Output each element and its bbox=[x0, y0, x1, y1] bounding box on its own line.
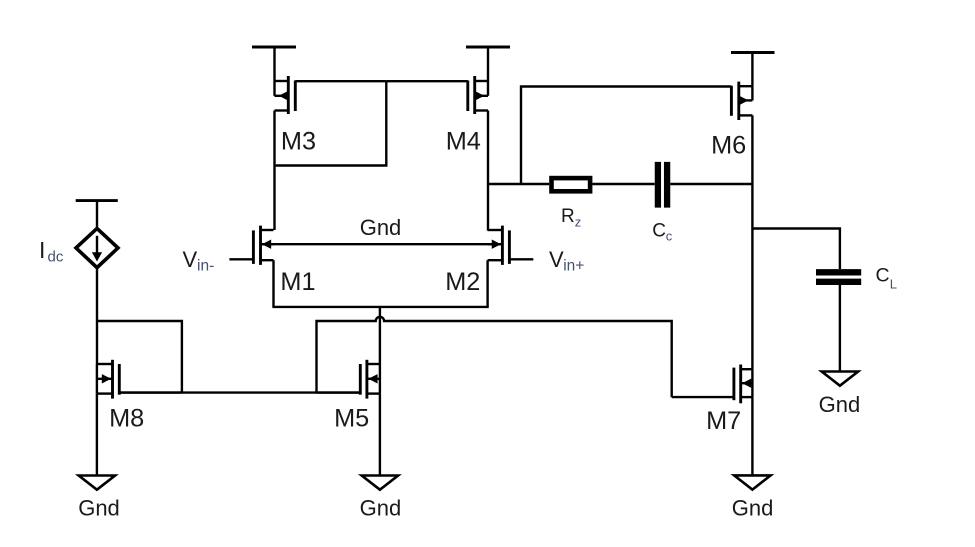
svg-text:V: V bbox=[183, 247, 198, 272]
current source Idc (diamond with arrow) bbox=[76, 228, 118, 267]
svg-text:L: L bbox=[890, 277, 897, 292]
wire Rz to Cc bbox=[592, 183, 654, 185]
label Gnd (M8) bbox=[78, 496, 120, 521]
label Gnd (M7) bbox=[732, 496, 774, 521]
wire common source node (tail) bbox=[272, 306, 488, 308]
wire Cc to output node bbox=[670, 183, 752, 185]
wire M5 source to ground bbox=[379, 394, 381, 476]
label Gnd (CL) bbox=[819, 392, 861, 417]
label M4 bbox=[446, 127, 481, 155]
wire Idc to M8 drain bbox=[96, 268, 98, 364]
label Vin- bbox=[183, 247, 215, 275]
wire M3 gate to drain (diode connection) bbox=[276, 81, 387, 165]
wire bias line to M7 gate (with crossover hop) bbox=[317, 317, 672, 397]
ground symbol below M5 bbox=[362, 476, 398, 490]
resistor Rz bbox=[552, 178, 591, 191]
label M1 bbox=[280, 268, 315, 296]
ground symbol below M8 bbox=[79, 476, 115, 490]
svg-text:Gnd: Gnd bbox=[360, 496, 402, 521]
wire CL to ground bbox=[839, 285, 841, 372]
power rail bar above M3 (VDD) bbox=[252, 47, 296, 81]
wire M1 source down bbox=[272, 260, 274, 307]
label M3 bbox=[281, 127, 316, 155]
ground symbol below M7 bbox=[734, 475, 770, 489]
ground symbol below CL bbox=[822, 372, 858, 386]
svg-text:M8: M8 bbox=[109, 404, 144, 432]
bulk net line M1-M2 (Gnd) with arrowheads bbox=[262, 240, 501, 248]
label M7 bbox=[706, 407, 741, 435]
label Gnd (M5) bbox=[360, 496, 402, 521]
svg-text:in+: in+ bbox=[563, 258, 584, 275]
svg-text:M7: M7 bbox=[706, 407, 741, 435]
wire M2 source down bbox=[486, 260, 488, 307]
label Gnd (bulk net) bbox=[360, 215, 402, 240]
svg-text:M6: M6 bbox=[711, 132, 746, 160]
svg-text:c: c bbox=[666, 229, 673, 244]
svg-text:in-: in- bbox=[197, 258, 214, 275]
nmos transistor M5 bbox=[317, 360, 380, 399]
wire output to CL bbox=[752, 229, 840, 270]
svg-text:Gnd: Gnd bbox=[78, 496, 120, 521]
svg-text:I: I bbox=[39, 237, 45, 263]
svg-text:M4: M4 bbox=[446, 127, 481, 155]
label M2 bbox=[445, 268, 480, 296]
label M5 bbox=[334, 404, 369, 432]
wire M8 gate to M5 gate (bias line) bbox=[119, 391, 360, 393]
nmos transistor M7 bbox=[672, 365, 753, 404]
svg-text:Gnd: Gnd bbox=[360, 215, 402, 240]
label Cc bbox=[652, 221, 673, 244]
pmos transistor M3 bbox=[275, 76, 387, 114]
wire output node (M6 drain to M7 drain) bbox=[751, 115, 753, 369]
svg-text:M3: M3 bbox=[281, 127, 316, 155]
label CL bbox=[876, 265, 898, 292]
capacitor Cc bbox=[658, 162, 667, 208]
wire M8 source to ground bbox=[96, 394, 98, 476]
nmos transistor M2 bbox=[488, 226, 534, 265]
wire M6 gate to node B bbox=[521, 87, 731, 185]
svg-text:dc: dc bbox=[48, 249, 64, 266]
pmos transistor M4 bbox=[386, 76, 488, 114]
capacitor CL bbox=[816, 272, 861, 282]
pmos transistor M6 bbox=[731, 82, 752, 120]
label M8 bbox=[109, 404, 144, 432]
svg-text:Gnd: Gnd bbox=[819, 392, 861, 417]
power rail bar above Idc bbox=[76, 201, 118, 229]
wire M7 source to ground bbox=[751, 397, 753, 475]
svg-text:C: C bbox=[876, 265, 890, 287]
power rail bar above M4 (VDD) bbox=[466, 47, 510, 81]
wire node B to Rz bbox=[488, 183, 549, 185]
svg-text:z: z bbox=[575, 214, 582, 229]
wire M8 drain to gate (diode connection) bbox=[97, 321, 182, 393]
power rail bar above M6 (VDD) bbox=[731, 53, 775, 87]
svg-text:Gnd: Gnd bbox=[732, 496, 774, 521]
nmos transistor M1 bbox=[229, 226, 273, 265]
nmos transistor M8 bbox=[97, 360, 182, 399]
svg-text:C: C bbox=[652, 221, 666, 242]
svg-text:M1: M1 bbox=[280, 268, 315, 296]
label M6 bbox=[711, 132, 746, 160]
wire M3 drain to M1 drain bbox=[273, 111, 275, 231]
label Idc bbox=[39, 237, 64, 266]
label Rz bbox=[561, 206, 581, 230]
svg-text:M2: M2 bbox=[445, 268, 480, 296]
svg-text:R: R bbox=[561, 206, 575, 227]
label Vin+ bbox=[549, 247, 584, 275]
svg-text:V: V bbox=[549, 247, 564, 272]
wire tail to M5 drain bbox=[379, 307, 381, 364]
svg-text:M5: M5 bbox=[334, 404, 369, 432]
wire M4 drain to M2 drain bbox=[487, 111, 489, 231]
